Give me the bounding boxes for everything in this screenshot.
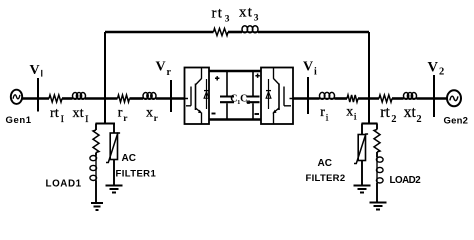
wire LOAD1 mid [95, 153, 97, 156]
label V2 [428, 60, 445, 78]
wire FILTER2 to ground [361, 161, 363, 186]
resistor LOAD2 R [374, 130, 380, 153]
svg-text:i: i [326, 114, 329, 124]
svg-text:I: I [85, 115, 88, 125]
svg-text:x: x [346, 105, 353, 120]
inductor xr [143, 93, 156, 100]
wire top branch left [105, 31, 214, 34]
wire LOAD1 drop [95, 124, 97, 131]
svg-text:Gen2: Gen2 [444, 116, 469, 127]
svg-text:LOAD2: LOAD2 [390, 175, 422, 186]
wire LOAD1 to ground [95, 181, 97, 204]
inductor LOAD1 L [90, 156, 97, 181]
wire xt2 to Gen2 [417, 97, 448, 100]
wire xt1 to rr [85, 97, 118, 100]
minus mark left [212, 113, 216, 115]
wire DC rail bottom [209, 118, 261, 121]
svg-text:V: V [303, 60, 313, 75]
svg-text:xt: xt [404, 104, 417, 121]
label Vi [303, 60, 317, 78]
wire FILTER2 drop [361, 124, 363, 135]
inductor LOAD2 L [376, 157, 383, 183]
label AC FILTER2 [306, 158, 346, 184]
resistor LOAD1 R [93, 130, 99, 153]
plus mark left [215, 76, 219, 80]
label xt1 [73, 106, 89, 125]
bus Vr [170, 80, 172, 112]
varistor AC FILTER1 [106, 133, 120, 163]
label Vr [156, 60, 172, 79]
generator Gen1 [11, 90, 22, 104]
ground FILTER2 [354, 186, 371, 193]
label rr [118, 106, 128, 125]
label xt3 [239, 5, 259, 24]
plus mark right [255, 74, 259, 78]
svg-text:3: 3 [225, 15, 230, 25]
label Gen2 [444, 116, 469, 127]
resistor rt2 [379, 95, 392, 102]
resistor xi [347, 95, 358, 102]
bus V2 [433, 75, 435, 117]
wire LOAD2 drop [376, 124, 378, 130]
IGBT Q2 body [278, 84, 280, 111]
svg-text:2: 2 [416, 114, 421, 125]
ground FILTER1 [106, 186, 123, 193]
svg-text:AC: AC [122, 153, 136, 164]
svg-text:rt: rt [212, 6, 224, 22]
bus V1 [37, 78, 39, 112]
svg-text:3: 3 [254, 14, 259, 24]
node B tap riser right [368, 32, 370, 124]
wire converter to ri [293, 97, 320, 100]
resistor rt3 [214, 28, 229, 35]
svg-text:2: 2 [391, 114, 396, 125]
label xt2 [404, 104, 422, 125]
converter U1 box [185, 68, 210, 125]
svg-text:I: I [61, 115, 64, 125]
wire right T-bar [362, 122, 378, 124]
ground LOAD2 [370, 203, 387, 210]
diode D2 [266, 79, 271, 109]
svg-text:rt: rt [380, 104, 390, 121]
svg-text:rt: rt [50, 106, 59, 121]
inductor xt2 [404, 93, 417, 100]
minus mark right [255, 113, 260, 115]
svg-text:xt: xt [73, 106, 84, 121]
label xr [146, 106, 159, 125]
svg-text:Gen1: Gen1 [6, 115, 32, 126]
wire rt3 to xt3 [228, 31, 242, 34]
ground LOAD1 [91, 203, 103, 210]
wire top branch right [258, 31, 369, 34]
wire LOAD2 to ground [376, 183, 378, 203]
wire left T-bar [96, 122, 116, 124]
wire xr to converter [156, 97, 185, 100]
svg-text:r: r [320, 105, 325, 120]
label C1 C2 [230, 94, 250, 107]
capacitor C1 [220, 71, 234, 120]
svg-text:2: 2 [439, 67, 444, 78]
wire Gen1 to bus V1 [22, 97, 49, 100]
wire FILTER1 to ground [113, 160, 115, 186]
varistor AC FILTER2 [354, 134, 368, 164]
IGBT Q2 collector [274, 68, 280, 85]
svg-text:V: V [30, 63, 40, 78]
svg-text:AC: AC [318, 158, 332, 169]
converter U2 box [261, 68, 293, 125]
label rt3 [212, 6, 230, 25]
label AC FILTER1 [116, 153, 157, 180]
IGBT Q1 emitter [196, 108, 203, 124]
wire rt1 to xt1 [62, 97, 73, 100]
wire xi to rt2 [358, 97, 379, 100]
IGBT Q1 body [195, 84, 197, 111]
svg-text:LOAD1: LOAD1 [46, 179, 82, 190]
label V1 [30, 63, 44, 79]
resistor rt1 [49, 95, 62, 102]
inductor xt3 [242, 26, 258, 33]
label LOAD2 [390, 175, 422, 186]
svg-text:FILTER1: FILTER1 [116, 169, 157, 180]
svg-text:i: i [354, 113, 357, 123]
svg-text:x: x [146, 106, 153, 121]
svg-text:V: V [156, 60, 166, 75]
generator Gen2 [447, 90, 461, 106]
IGBT Q1 collector [196, 68, 202, 85]
svg-text:I: I [41, 69, 44, 79]
node A tap riser left [104, 32, 106, 124]
svg-text:V: V [428, 60, 439, 76]
IGBT Q2 gate [284, 87, 293, 106]
svg-text:i: i [314, 67, 317, 78]
svg-text:xt: xt [239, 5, 253, 21]
wire rt2 to xt2 [392, 97, 404, 100]
label xi [346, 105, 357, 123]
capacitor C2 [247, 71, 260, 120]
label LOAD1 [46, 179, 82, 190]
diode D1 [204, 79, 209, 109]
label rt2 [380, 104, 396, 125]
wire FILTER1 drop [113, 124, 115, 134]
resistor rr [118, 95, 130, 102]
inductor xt1 [73, 93, 86, 100]
inductor ri [320, 92, 335, 99]
label rt1 [50, 106, 64, 125]
label ri [320, 105, 329, 124]
wire DC rail top [209, 70, 261, 73]
IGBT Q1 gate [185, 87, 192, 106]
svg-text:FILTER2: FILTER2 [306, 173, 346, 184]
IGBT Q2 emitter [272, 108, 279, 124]
label Gen1 [6, 115, 32, 126]
wire rr to xr [130, 97, 144, 100]
svg-text:r: r [167, 67, 172, 78]
bus Vi [307, 77, 309, 114]
svg-text:r: r [118, 106, 123, 121]
wire ri to xi [335, 97, 348, 100]
wire LOAD2 mid [376, 152, 378, 157]
